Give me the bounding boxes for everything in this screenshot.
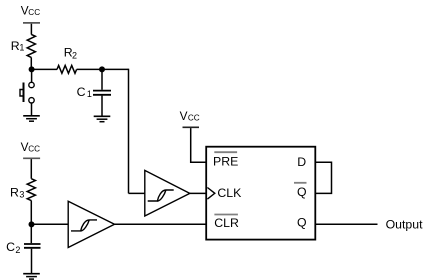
svg-text:Output: Output xyxy=(386,217,423,231)
svg-text:CC: CC xyxy=(28,8,40,17)
svg-text:CC: CC xyxy=(28,145,40,154)
svg-text:CC: CC xyxy=(188,114,200,123)
svg-text:Q: Q xyxy=(297,185,307,199)
svg-text:CLR: CLR xyxy=(214,216,239,230)
svg-text:D: D xyxy=(297,155,306,169)
svg-text:PRE: PRE xyxy=(213,155,238,169)
svg-text:V: V xyxy=(180,109,188,123)
svg-text:C: C xyxy=(77,85,86,99)
svg-text:Q: Q xyxy=(297,215,307,229)
svg-text:C: C xyxy=(6,240,15,254)
svg-text:1: 1 xyxy=(87,89,92,99)
svg-text:CLK: CLK xyxy=(217,186,242,200)
svg-text:R: R xyxy=(10,186,19,200)
svg-text:1: 1 xyxy=(19,43,24,53)
svg-text:3: 3 xyxy=(19,190,24,200)
svg-text:2: 2 xyxy=(72,51,77,61)
svg-text:2: 2 xyxy=(15,245,20,255)
